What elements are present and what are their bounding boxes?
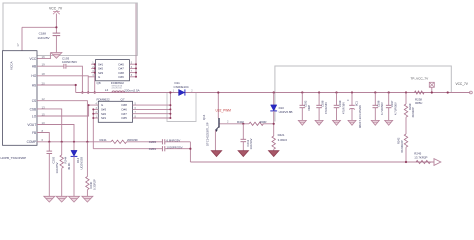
svg-text:S#1: S#1 bbox=[101, 116, 107, 120]
capacitor C203 bbox=[149, 139, 181, 145]
svg-text:R402: R402 bbox=[237, 120, 244, 124]
wire HB to C193 bbox=[37, 65, 64, 67]
svg-text:CS: CS bbox=[32, 99, 36, 103]
inductor L4 bbox=[105, 84, 140, 92]
svg-text:47UF/16V: 47UF/16V bbox=[341, 102, 345, 114]
svg-text:C192: C192 bbox=[304, 100, 308, 107]
C201 row from Q7 source bus bbox=[93, 148, 162, 150]
svg-text:8C1: 8C1 bbox=[354, 101, 358, 106]
MOSFET Q8 box bbox=[96, 60, 130, 81]
svg-text:CS0DE104: CS0DE104 bbox=[174, 85, 189, 89]
svg-text:Q7: Q7 bbox=[121, 97, 125, 101]
capacitor C201 bbox=[149, 145, 183, 151]
svg-text:0R5U: 0R5U bbox=[415, 101, 422, 105]
COMP row bbox=[37, 141, 111, 143]
wire VOUT down bbox=[37, 125, 74, 142]
svg-text:C201: C201 bbox=[149, 147, 157, 151]
svg-text:R241: R241 bbox=[100, 138, 108, 142]
svg-text:3.3KRJ: 3.3KRJ bbox=[278, 138, 288, 142]
svg-text:2: 2 bbox=[191, 89, 193, 92]
compensation branch R244 bbox=[60, 142, 71, 197]
svg-text:49.9K: 49.9K bbox=[67, 163, 71, 170]
svg-text:1UF/16V: 1UF/16V bbox=[249, 138, 253, 149]
svg-text:LO: LO bbox=[32, 114, 37, 118]
svg-text:Q14: Q14 bbox=[202, 114, 206, 120]
svg-text:C205: C205 bbox=[51, 156, 55, 163]
resistor R402 bbox=[237, 120, 274, 125]
wire CSB down bbox=[37, 109, 62, 142]
svg-text:L4: L4 bbox=[105, 88, 109, 92]
VIN bus up into block frame bbox=[135, 4, 137, 77]
ground under C188 bbox=[51, 53, 62, 59]
svg-text:Q8: Q8 bbox=[97, 81, 101, 85]
junction bbox=[55, 26, 57, 28]
svg-text:R244: R244 bbox=[64, 156, 68, 163]
wire branch to pin 17 bbox=[22, 26, 56, 28]
svg-text:4.7UF/50V: 4.7UF/50V bbox=[380, 102, 384, 115]
svg-text:DNP: DNP bbox=[307, 105, 311, 111]
svg-text:17: 17 bbox=[16, 43, 20, 47]
svg-text:D#5: D#5 bbox=[122, 116, 128, 120]
svg-text:+: + bbox=[347, 99, 349, 103]
svg-text:16: 16 bbox=[42, 55, 46, 59]
grey sub-frame below VCC rail bbox=[167, 93, 196, 122]
svg-text:U32_PWM: U32_PWM bbox=[216, 109, 232, 113]
wire VCC pin to ground bbox=[37, 53, 50, 59]
svg-text:C188: C188 bbox=[39, 31, 47, 35]
wire C193 to SW rail bbox=[66, 66, 83, 92]
VCC_7V output bbox=[447, 82, 473, 94]
wire pin17 vertical bbox=[21, 27, 23, 50]
wire VCC_7V vertical to C188 bbox=[55, 14, 57, 34]
wire C188 to ground bbox=[55, 36, 57, 53]
svg-text:0.33R2P: 0.33R2P bbox=[92, 179, 96, 190]
wire FB down bbox=[37, 133, 49, 142]
IC pin labels bbox=[27, 57, 37, 144]
zener D10 string bbox=[270, 91, 292, 150]
svg-text:HB: HB bbox=[32, 65, 36, 69]
power symbol VCC_7V bbox=[49, 7, 63, 15]
zener D12 bbox=[71, 142, 84, 197]
MOSFET Q7 box bbox=[98, 101, 132, 122]
svg-text:HO: HO bbox=[31, 74, 36, 78]
svg-text:C197: C197 bbox=[390, 100, 394, 107]
IC pin numbers bbox=[42, 55, 46, 142]
SW vertical to rail bbox=[169, 93, 171, 119]
IC U? main controller box bbox=[3, 51, 38, 146]
svg-text:1UF/25V: 1UF/25V bbox=[37, 36, 50, 40]
Q8 source stubs and bus bbox=[91, 63, 95, 65]
svg-text:R239: R239 bbox=[408, 103, 412, 110]
resistor R245 bbox=[414, 152, 430, 164]
capacitor C193 bbox=[62, 56, 77, 68]
svg-text:COMP: COMP bbox=[27, 140, 37, 144]
Q8 drain stubs and VIN bus bbox=[129, 63, 136, 65]
capacitor C213 bbox=[241, 123, 254, 151]
svg-text:C198: C198 bbox=[321, 100, 325, 107]
svg-text:D#6: D#6 bbox=[119, 75, 125, 79]
sense resistor R240 bbox=[86, 142, 97, 197]
svg-text:64.9KR2P: 64.9KR2P bbox=[400, 140, 404, 152]
SW / VCC_7V output rail bbox=[76, 92, 471, 94]
svg-text:R421: R421 bbox=[278, 133, 285, 137]
hierarchical block frame (right grey box) bbox=[275, 66, 451, 122]
svg-text:DTC143ZEBTL,SP: DTC143ZEBTL,SP bbox=[205, 122, 209, 146]
Q7 source stubs and bus bbox=[93, 108, 98, 110]
svg-text:2: 2 bbox=[227, 120, 229, 124]
wire HO to Q8 gate bbox=[37, 76, 88, 93]
svg-text:220um2.5A: 220um2.5A bbox=[124, 89, 139, 93]
svg-text:47UF/16V: 47UF/16V bbox=[324, 102, 328, 114]
electrolytic capacitor bbox=[347, 91, 362, 128]
svg-text:C196: C196 bbox=[377, 100, 381, 107]
svg-text:C199: C199 bbox=[338, 100, 342, 107]
svg-text:1UF/25V: 1UF/25V bbox=[55, 162, 59, 173]
wire LO to Q7 gate bbox=[37, 105, 98, 116]
compensation branch C205 bbox=[47, 142, 59, 197]
capacitor C188 bbox=[37, 31, 60, 40]
svg-text:FDM8622: FDM8622 bbox=[97, 97, 111, 101]
wire HS to SW corner bbox=[37, 85, 76, 93]
svg-text:VOUT: VOUT bbox=[27, 123, 36, 127]
svg-text:FB: FB bbox=[32, 131, 36, 135]
svg-text:HOPB_TSSOP20P: HOPB_TSSOP20P bbox=[1, 156, 27, 160]
svg-text:13.7KR2P: 13.7KR2P bbox=[414, 156, 427, 160]
Q8 source bus to SW rail bbox=[94, 64, 96, 92]
wire R241 to C203 bbox=[127, 141, 163, 143]
hierarchical block frame (top-left grey box) bbox=[3, 3, 137, 56]
transistor Q14 bbox=[202, 91, 231, 150]
svg-text:220uH/2.5A: 220uH/2.5A bbox=[112, 87, 123, 90]
resistor R238 bbox=[415, 91, 425, 105]
svg-text:4.7UF/50V: 4.7UF/50V bbox=[394, 102, 398, 115]
svg-text:VCC_7V: VCC_7V bbox=[456, 82, 469, 86]
resistor R241 bbox=[100, 138, 139, 144]
svg-text:98UF7.3X4.3TM16: 98UF7.3X4.3TM16 bbox=[358, 105, 362, 128]
off-page connector arrow bbox=[434, 159, 441, 166]
test point TP_VCC_7V bbox=[411, 77, 435, 94]
svg-text:49.9RJP: 49.9RJP bbox=[411, 107, 415, 118]
base wire to R402 bbox=[220, 123, 250, 125]
svg-text:R242: R242 bbox=[396, 137, 400, 144]
svg-text:VCCA: VCCA bbox=[9, 60, 13, 70]
svg-text:UDZV15B: UDZV15B bbox=[79, 157, 83, 170]
feedback divider R239 / R242 bbox=[396, 91, 415, 162]
svg-text:HS: HS bbox=[32, 83, 36, 87]
FB line bbox=[190, 161, 434, 163]
output capacitor bank bbox=[300, 91, 312, 120]
svg-text:UDZV6.8B: UDZV6.8B bbox=[279, 110, 293, 114]
Q7 drain wires to SW vertical bbox=[133, 104, 171, 106]
svg-text:TP_VCC_7V: TP_VCC_7V bbox=[411, 77, 430, 81]
svg-text:1: 1 bbox=[173, 89, 175, 92]
svg-text:VCC_7V: VCC_7V bbox=[49, 7, 63, 11]
svg-text:VCC: VCC bbox=[29, 57, 36, 61]
svg-text:CSB: CSB bbox=[30, 107, 37, 111]
svg-text:C203: C203 bbox=[149, 140, 157, 144]
diode D11 on rail bbox=[173, 81, 194, 95]
wire CS down bbox=[37, 101, 87, 142]
svg-text:100NF/50V: 100NF/50V bbox=[62, 60, 77, 64]
FB net vertical joining C203/C201 bbox=[189, 142, 191, 162]
